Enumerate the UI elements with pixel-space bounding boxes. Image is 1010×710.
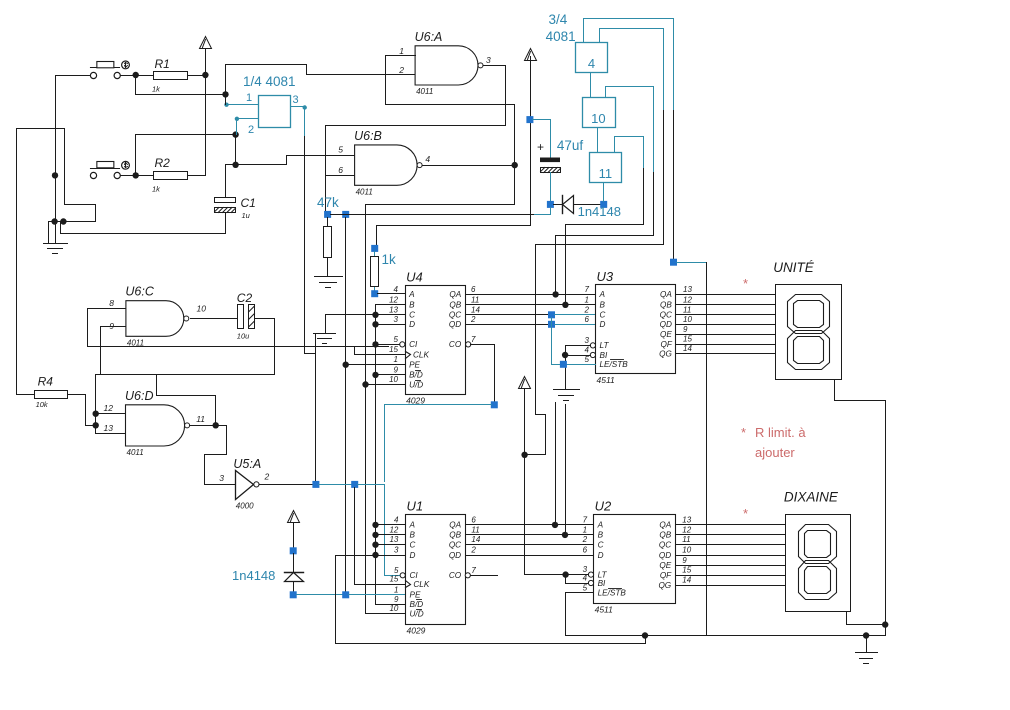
svg-text:QD: QD [659,551,671,560]
svg-text:13: 13 [682,515,691,524]
svg-text:1n4148: 1n4148 [232,568,275,583]
7-segment digit DIXAINE [799,525,837,564]
wire SW1 to R1 [121,75,154,77]
junction node A (SW1/R1) [133,72,139,78]
wire diode node down to 47k line [550,208,552,215]
ground mid (U4.C) [314,333,336,335]
U2 BI bubble [588,580,593,585]
svg-text:BI: BI [600,351,608,360]
svg-text:QB: QB [660,301,672,310]
svg-text:QE: QE [660,330,672,339]
capacitor C2 left plate [238,305,244,329]
U3 LT bubble [590,343,595,348]
U1 QC wire to U2.C [466,544,594,546]
U4 CLK wire from oscillator [355,347,406,355]
junction dot bottom ground [863,632,869,638]
svg-text:11: 11 [599,166,613,181]
wire C2 loop branch to U6:D loop [157,375,216,424]
svg-text:LE/STB: LE/STB [598,589,627,598]
svg-text:B: B [598,531,604,540]
capacitor C1 top plate [215,198,236,203]
push button SW2 [90,172,96,178]
svg-text:9: 9 [682,556,687,565]
svg-text:C: C [600,311,606,320]
junction dot U6:D input R4 [93,422,99,428]
U1 BD stub [376,604,406,606]
svg-text:1: 1 [394,585,398,594]
svg-text:1: 1 [583,525,587,534]
NAND gate U6:B [355,145,418,185]
svg-text:U/D: U/D [409,380,423,389]
svg-text:U/D: U/D [410,609,424,618]
svg-text:DIXAINE: DIXAINE [784,490,839,505]
svg-text:U6:C: U6:C [125,285,154,299]
svg-text:7: 7 [471,335,476,344]
junction dot PE U4 [343,362,349,368]
blue junction square tap for 47uf [526,116,533,123]
svg-text:15: 15 [389,575,398,584]
U4 CLK mark [406,352,411,359]
7-segment display UNITE box [776,285,842,380]
svg-text:C: C [409,311,415,320]
resistor R2 [154,172,188,180]
wire U6:D pin 12 [96,413,126,415]
svg-text:6: 6 [583,546,588,555]
wire +V rail to 1k [377,57,531,249]
svg-text:QD: QD [660,320,672,329]
power arrow +V top-left [200,37,212,49]
power arrow +V (47uf rail) [525,49,537,61]
wire U6:B inputs loop [325,126,327,215]
wire U6:C pin 8 loop to osc line [88,309,126,347]
svg-text:47uf: 47uf [557,138,584,153]
svg-text:4011: 4011 [416,87,433,96]
svg-text:D: D [409,320,415,329]
blue square U4.CO net [491,401,498,408]
wire SW2 to R2 [121,175,154,177]
wire UNITE display common to right rail [835,380,886,622]
wire C1 top [225,165,227,198]
svg-text:R1: R1 [155,57,170,71]
power arrow +V (U1 PE) [288,511,300,523]
wires U3 outputs to UNITE display [676,294,776,296]
junction dot 4081 pin2 node [232,131,238,137]
junction dot U2.A [552,522,558,528]
U4 QD wire to U3.D [466,324,549,326]
teal wire PE net [297,594,343,596]
junction dot U2 LT [562,571,568,577]
wire C1 bottom return [61,214,226,234]
svg-text:R4: R4 [38,375,54,389]
wire C1 node to U6:B input [226,156,355,165]
capacitor C2 hatched plate [249,305,255,329]
capacitor 47uf + plate [540,158,560,163]
wire U6:C pin 9 [101,327,126,375]
teal wire U3 C/D to LE/STB [551,318,553,365]
junction dot bottom net [642,632,648,638]
U4 CO wire down to teal net [471,345,495,402]
junction dots on jog line [51,218,57,224]
svg-text:U6:B: U6:B [354,129,382,143]
blue square block4 loop to right bus [670,259,677,266]
svg-text:8: 8 [109,298,114,308]
blue square D2 anode [290,547,297,554]
junction dot U6:D input 12 [93,411,99,417]
wire +V rail vertical [205,49,207,175]
svg-text:LE/STB: LE/STB [600,360,629,369]
teal wire U3 LE/STB [552,364,596,366]
svg-text:U1: U1 [407,499,424,514]
svg-text:QF: QF [661,340,673,349]
svg-text:QB: QB [449,531,461,540]
svg-text:U3: U3 [597,269,614,284]
resistor R4 [35,391,68,399]
svg-text:6: 6 [338,165,343,175]
U4 BD stub [376,374,406,376]
teal wire CO net to clock chain [385,405,492,482]
wire D2 to PE net [293,582,295,592]
U4 CI stub [376,344,400,346]
svg-text:11: 11 [683,305,691,314]
svg-text:12: 12 [683,295,692,304]
svg-text:*: * [741,425,746,440]
svg-text:1/4 4081: 1/4 4081 [243,74,296,89]
wire U1 D row to bottom loop [336,556,646,644]
svg-text:3/4: 3/4 [549,12,568,27]
wire R1 to +V rail [188,75,206,77]
U2 LT bubble [588,572,593,577]
blue square clock line 1 [312,481,319,488]
svg-text:4: 4 [585,346,590,355]
svg-text:U2: U2 [595,498,612,513]
AND block 4 [576,43,608,73]
wire pin2 node down to C1 node [235,135,237,165]
svg-text:R2: R2 [155,156,171,170]
svg-text:3: 3 [394,546,399,555]
wire U6:D output to U5:A input [205,426,227,485]
svg-text:CLK: CLK [413,350,429,359]
power arrow +V (U2 LT/BI) [519,377,531,389]
wire ground area down to U5 line [315,335,317,482]
svg-text:4011: 4011 [356,187,373,196]
svg-text:QC: QC [659,541,671,550]
svg-text:2: 2 [582,535,588,544]
svg-text:1: 1 [394,355,398,364]
svg-text:U5:A: U5:A [233,457,261,471]
wire node B up to 4081 pin2 node [136,135,236,176]
wire R2 to +V rail bottom [188,175,206,177]
svg-text:10: 10 [682,546,691,555]
svg-text:4: 4 [394,285,399,294]
wire ground to U2.B [565,405,567,535]
svg-text:3: 3 [486,55,491,65]
svg-text:4000: 4000 [236,502,254,511]
svg-text:13: 13 [389,535,398,544]
svg-text:11: 11 [682,535,690,544]
diode D2 triangle [285,573,304,582]
U4 CO bubble [466,342,471,347]
decoder U2 4511 [594,515,676,604]
svg-text:5: 5 [394,566,399,575]
svg-text:14: 14 [683,344,692,353]
wire U6:B pin 6 [326,175,355,177]
wire U6:A pin1 feedback loop [386,56,515,166]
svg-text:4511: 4511 [595,605,614,615]
wire right bus down to U2 region [677,263,707,636]
wire loop to U3.B vertical [566,169,644,305]
7-segment digit UNITE [788,295,830,334]
svg-text:5: 5 [585,355,590,364]
svg-text:QF: QF [660,571,672,580]
AND block 11 [590,153,622,183]
U1 QA wire to U2.A [466,524,594,526]
svg-text:4011: 4011 [127,338,144,347]
svg-text:14: 14 [471,305,480,314]
svg-text:QB: QB [659,531,671,540]
U1 CI bubble [400,573,405,578]
junction dot 4081 pin1 node [222,91,228,97]
svg-text:47k: 47k [317,195,339,210]
wire loop to U2 LT feed [526,111,664,455]
wire U5:A output to clock line [260,484,313,486]
U1 QD wire to U2.D [466,555,594,557]
inverter U5:A [236,471,254,500]
svg-text:12: 12 [104,403,114,413]
blue junction square D1/block11 [600,201,607,208]
capacitor C1 hatched plate [215,208,236,213]
blue square PE net / 47k line [342,591,349,598]
svg-text:11: 11 [471,295,479,304]
svg-text:1k: 1k [152,185,161,194]
svg-text:3: 3 [219,473,224,483]
svg-text:B: B [410,531,416,540]
svg-text:QB: QB [449,301,461,310]
wire oscillator output line (U6:C net) [88,346,389,348]
svg-text:13: 13 [389,305,398,314]
ground U3 [554,389,580,391]
U4 QA wire to U3.A [466,294,596,296]
svg-text:CI: CI [409,340,418,349]
blue square U3.D [548,321,555,328]
wire ground to U2.A [555,403,557,525]
svg-text:CLK: CLK [413,580,429,589]
svg-text:*: * [743,276,748,291]
junction dot left rail / button SW2 [52,172,58,178]
wire R4 right to U6:D inputs [68,395,96,426]
teal wire block10 to block11 [597,129,599,153]
svg-text:4011: 4011 [127,448,144,457]
wire U6:A output pin3 [326,66,506,126]
wire pin3 down (teal then black) [304,107,306,137]
U1 CO stub [465,573,470,578]
blue square U3.C [548,311,555,318]
svg-text:5: 5 [338,145,343,155]
wire U3 LT/BI to ground [566,345,591,347]
U1 UD stub [366,613,406,615]
blue square clock line 2 (U1 CLK tap) [351,481,358,488]
svg-text:7: 7 [585,285,590,294]
junction dot arrow line [521,452,527,458]
svg-text:15: 15 [683,335,692,344]
wire U6:B output pin 4 [423,165,515,167]
blue square D2 bottom [290,591,297,598]
teal wire block11 bottom [603,183,605,202]
svg-text:12: 12 [389,525,398,534]
svg-text:1k: 1k [382,252,397,267]
svg-text:BI: BI [598,579,606,588]
wire left rail down to ground [55,176,57,244]
svg-text:QA: QA [659,521,671,530]
wire U2 BI tie [566,575,589,584]
svg-text:6: 6 [471,515,476,524]
wire 1k top [374,252,376,257]
svg-text:14: 14 [471,535,480,544]
junction dot U6:D output [213,422,219,428]
wire 4081 pin1 node up to U6:A input loop [226,65,416,95]
svg-text:B: B [409,301,415,310]
svg-text:4029: 4029 [407,626,426,636]
teal wire PE net to U1 [349,594,406,596]
svg-text:A: A [409,521,416,530]
svg-text:B: B [600,301,606,310]
svg-text:C: C [598,541,604,550]
7-segment display DIXAINE box [786,515,851,612]
teal wire block4 to block10 [590,74,592,98]
svg-text:13: 13 [683,285,692,294]
svg-text:B/D: B/D [410,600,424,609]
U4 QB wire to U3.B [466,304,596,306]
teal wire to U1 CI [385,485,400,576]
svg-text:5: 5 [394,335,399,344]
svg-text:2: 2 [470,546,476,555]
svg-text:QA: QA [660,290,672,299]
diode D2 1n4148 cathode bar [285,572,304,574]
svg-text:11: 11 [196,414,205,424]
svg-text:2: 2 [264,472,270,482]
teal wire block4 pin via top-left loop [584,19,674,111]
wire U/D line down to U1 [365,385,367,614]
svg-text:A: A [599,290,606,299]
svg-text:1: 1 [246,92,252,104]
U1 QB wire to U2.B [466,534,594,536]
U1 D stub [376,555,406,557]
svg-text:10: 10 [389,375,398,384]
wire D1 to block 11 [574,204,601,206]
svg-text:4511: 4511 [597,375,616,385]
svg-text:1u: 1u [242,211,251,220]
wire U6:B output down to U/D line [366,166,515,385]
ground 47k [315,276,343,278]
svg-text:10u: 10u [237,332,250,341]
svg-text:+: + [537,140,544,154]
svg-text:3: 3 [585,336,590,345]
svg-text:10k: 10k [36,400,49,409]
wire diode node to D1 [554,204,563,206]
svg-text:10: 10 [389,604,398,613]
svg-text:12: 12 [389,295,398,304]
svg-text:10: 10 [197,304,207,314]
svg-text:1: 1 [399,46,404,56]
teal clock line [319,484,352,486]
ground bottom right [866,636,868,653]
svg-text:2: 2 [248,124,254,136]
wire U4.C row to ground [326,315,376,334]
svg-text:D: D [600,320,606,329]
U3 BI bubble [590,352,595,357]
svg-text:CO: CO [449,571,462,580]
wire pin3 jog to U5 output line [305,354,316,484]
diode D1 1n4148 cathode bar [562,196,564,214]
wire arrow down to LT [525,389,589,575]
svg-text:2: 2 [470,315,476,324]
svg-text:QE: QE [659,561,671,570]
blue square 47k line junction [342,211,349,218]
svg-text:15: 15 [389,345,398,354]
NAND gate U6:D [126,405,185,446]
U4 QC wire to U3.C [466,314,549,316]
junction node B (SW2/R2) [133,172,139,178]
blue square 47k top [324,211,331,218]
teal wire block4 right pin loop [600,29,664,111]
junction dot U4.QB/U3.B riser [562,302,568,308]
svg-text:4: 4 [394,515,399,524]
svg-text:2: 2 [584,305,590,314]
junction dot U2.B [562,532,568,538]
junction dot R1 / +V rail [202,72,208,78]
svg-text:5: 5 [583,583,588,592]
diode D1 triangle [563,196,574,214]
U4 PE stub [346,364,406,366]
resistor 47k [327,218,329,227]
U4 B stub [376,304,406,306]
svg-text:10: 10 [683,315,692,324]
ground left rail [44,243,68,245]
U1 CLK stub [355,584,406,586]
svg-text:4: 4 [588,56,595,71]
U4 B/C/D/CI/BD tie vertical [375,305,377,604]
svg-text:B/D: B/D [409,371,423,380]
wire 1k bottom to U4.A [374,288,376,291]
blue square U3 LE/STB [560,361,567,368]
capacitor 47uf hatched plate [541,168,561,173]
U1 A stub [376,524,406,526]
wire arrow to D2 [293,523,295,548]
wire 47k junction down to PE line [345,218,347,592]
wire U6:C output to C2 [191,318,238,320]
svg-text:PE: PE [409,361,420,370]
wire 4081 pin 3 output [291,106,305,108]
svg-text:2: 2 [398,65,404,75]
svg-text:6: 6 [585,315,590,324]
wire DIXAINE display common [847,612,886,625]
svg-text:4081: 4081 [546,29,576,44]
U4 UD stub [366,384,406,386]
NAND gate U6:C [126,301,184,337]
svg-text:C1: C1 [241,196,256,210]
svg-text:3: 3 [394,315,399,324]
svg-text:CO: CO [449,340,462,349]
svg-text:14: 14 [682,576,691,585]
wires U2 outputs to DIXAINE display [676,524,786,526]
junction dot display common rail [882,621,888,627]
AND block 10 [583,98,616,128]
svg-text:9: 9 [394,595,399,604]
wire U6:D output [190,425,216,427]
svg-text:U6:A: U6:A [415,30,443,44]
wire 4081 pin 1 [226,104,259,106]
svg-text:QG: QG [659,349,672,358]
svg-text:QC: QC [449,311,461,320]
